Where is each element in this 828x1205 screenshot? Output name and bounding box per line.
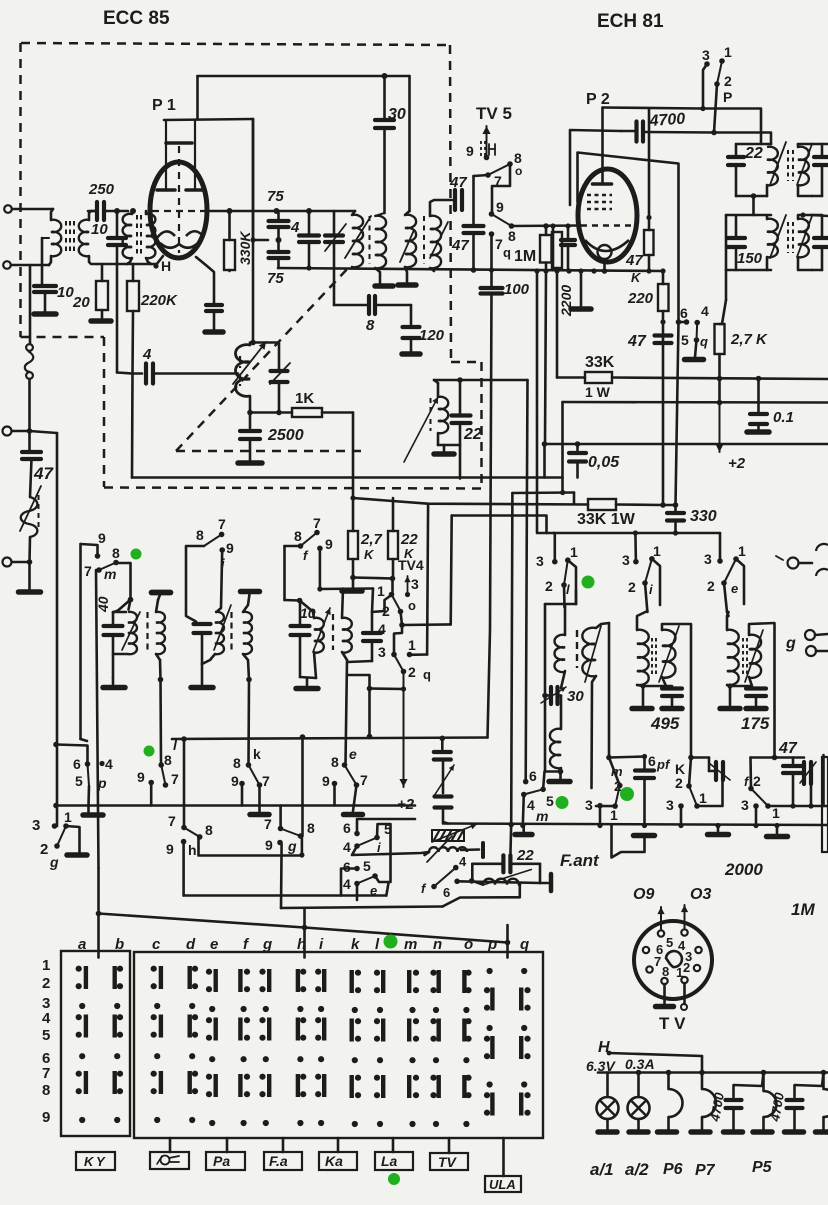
tube P2 cathode circle <box>598 245 612 259</box>
xfmr495 primary <box>637 630 649 685</box>
svg-text:5: 5 <box>666 935 673 950</box>
xfmr175 core <box>742 638 744 676</box>
box ULA stem <box>502 1138 505 1176</box>
svg-text:k: k <box>351 936 360 953</box>
input transformer 2 secondary <box>146 214 155 258</box>
FM antenna coil <box>21 497 38 537</box>
svg-text:5: 5 <box>42 1027 50 1044</box>
resistor 1K <box>292 408 322 417</box>
svg-text:TV 5: TV 5 <box>476 104 512 123</box>
switch group e: contact 3 <box>717 558 723 564</box>
junction <box>636 1070 642 1076</box>
ground (175 sec) <box>746 706 766 712</box>
svg-text:2200: 2200 <box>558 285 574 317</box>
svg-text:H: H <box>161 258 171 274</box>
capacitor (sec top right) <box>812 143 822 146</box>
green dot (K) <box>620 787 634 801</box>
wire tank2 left down <box>725 215 728 270</box>
padder cap 30 <box>545 694 549 697</box>
svg-text:ECC 85: ECC 85 <box>103 8 170 29</box>
wire tank1-tank2 <box>752 196 755 215</box>
capacitor 0.05 <box>576 444 579 450</box>
input transformer 2 core <box>136 215 138 257</box>
junction <box>302 925 308 931</box>
matrix contact pattern <box>84 966 88 989</box>
FM coil arrow <box>20 486 41 531</box>
switch f3: contacts <box>431 884 437 890</box>
wire P2 g1 left <box>578 153 679 323</box>
contact 9 (f-up) <box>317 546 323 552</box>
wire y444 <box>545 443 828 446</box>
wire e2-9 stem <box>333 784 336 806</box>
heater symbol dashes <box>480 141 482 158</box>
capacitor 4 <box>308 211 311 233</box>
ground (TV socket) <box>656 1004 674 1010</box>
FM coil core dash <box>38 495 40 531</box>
lamp P7 <box>701 1073 704 1090</box>
capacitor 100 <box>481 286 503 290</box>
svg-text:1: 1 <box>610 807 618 823</box>
svg-text:O3: O3 <box>690 886 711 903</box>
svg-text:TV4: TV4 <box>398 557 424 573</box>
wire f9 down <box>319 548 322 589</box>
wire contact2 down <box>714 84 717 133</box>
wire 6b left <box>341 869 357 896</box>
tube P1 anode left <box>157 188 175 192</box>
svg-text:2: 2 <box>683 960 690 975</box>
contact 2q (TV4) <box>401 669 407 675</box>
svg-text:8: 8 <box>196 527 204 543</box>
dashed box left edge <box>19 43 22 337</box>
svg-text:6: 6 <box>443 885 450 900</box>
switch group l: contact 3 <box>552 559 558 565</box>
dashed box left-mid vertical <box>103 337 106 487</box>
wire sec-to-369 <box>347 675 370 689</box>
wire T2 sec top <box>430 200 452 216</box>
ground (P7) <box>691 1129 710 1135</box>
phono jack arcs top <box>816 544 828 551</box>
svg-text:33K: 33K <box>585 354 615 371</box>
svg-text:175: 175 <box>741 714 770 733</box>
wire 611 drop <box>612 825 645 858</box>
switch k2: contact 9 <box>239 781 245 787</box>
dashed box bottom-left jog <box>21 336 105 339</box>
box ULA <box>485 1176 521 1192</box>
svg-text:8: 8 <box>331 754 339 770</box>
IF T2 secondary <box>430 216 441 269</box>
wire (none) <box>280 895 282 898</box>
contact 3 (mini) <box>597 803 603 809</box>
matrix box c-q <box>134 952 543 1138</box>
svg-text:8: 8 <box>112 545 120 561</box>
arrow TV5 up <box>486 126 488 157</box>
tankA core <box>146 612 148 650</box>
wire a-feed <box>97 914 100 958</box>
svg-text:250: 250 <box>88 181 115 198</box>
contact 1 (mini) <box>612 803 618 809</box>
tankC core <box>332 614 334 650</box>
switch g: contact 1 <box>63 823 69 829</box>
wire Fant to cap <box>509 825 512 856</box>
switch g2: contact 8 <box>298 833 304 839</box>
switch group i-up: bracket <box>186 546 204 622</box>
F.ant round coil <box>483 879 519 885</box>
tank22 coil <box>438 397 448 433</box>
junction <box>382 73 388 79</box>
wire left column top <box>29 265 32 344</box>
blade i-up <box>204 534 222 546</box>
capacitor (cathode) <box>206 303 222 307</box>
wire FM coil down <box>28 537 31 562</box>
svg-text:2,7 K: 2,7 K <box>730 331 768 348</box>
wire trimmer down <box>278 382 281 413</box>
wire 688 link <box>370 687 404 690</box>
svg-text:o: o <box>515 164 522 178</box>
wire long 805 <box>56 804 415 807</box>
capacitor 47 lower <box>464 224 484 228</box>
switch group e: contact 1 <box>733 556 739 562</box>
wire m2-4 up <box>523 795 524 826</box>
svg-text:9: 9 <box>322 773 330 789</box>
svg-text:2: 2 <box>675 775 683 791</box>
capacitor 4700a <box>734 1073 764 1098</box>
svg-text:7: 7 <box>218 516 226 532</box>
svg-text:6: 6 <box>529 768 537 784</box>
capacitor 2500 <box>249 413 252 429</box>
svg-text:b: b <box>115 936 124 953</box>
wire tankA sec bottom <box>156 654 160 660</box>
dashed right-lower vertical <box>480 362 483 488</box>
wire contact8 down <box>492 164 510 212</box>
svg-text:6: 6 <box>648 753 656 769</box>
contact 1 (P) <box>719 58 725 64</box>
wire 537-546 jog <box>536 530 538 531</box>
switch q: contact 4 <box>694 320 700 326</box>
switch k2: blade <box>249 765 260 785</box>
switch group i: contact 2 <box>642 580 648 586</box>
svg-text:1: 1 <box>570 544 578 560</box>
svg-text:3: 3 <box>741 797 749 813</box>
capacitor 120 <box>410 305 413 324</box>
ground (2500) <box>238 460 262 466</box>
lamp (right edge) <box>824 1089 828 1117</box>
switch ei: contact 6b <box>354 866 360 872</box>
svg-text:P: P <box>723 89 732 105</box>
svg-text:p: p <box>487 936 497 953</box>
switch group i: contact 1 <box>649 556 655 562</box>
svg-text:1: 1 <box>653 543 661 559</box>
svg-text:4: 4 <box>701 303 709 319</box>
switch group l: contact 1 <box>565 557 571 563</box>
TV socket pin lead <box>683 983 686 1004</box>
svg-text:9: 9 <box>466 143 474 159</box>
ground (825 left) <box>717 826 720 832</box>
svg-text:i: i <box>649 582 653 597</box>
capacitor 10 (grid) <box>116 211 119 236</box>
ground (left column) <box>19 589 41 595</box>
wire l1 down <box>568 560 576 604</box>
ground (4700b) <box>785 1129 804 1135</box>
svg-text:P7: P7 <box>695 1162 716 1179</box>
ground (825 right) <box>776 826 779 834</box>
svg-text:La: La <box>381 1153 398 1169</box>
svg-text:K: K <box>364 547 375 562</box>
svg-text:47: 47 <box>33 464 54 483</box>
tankC secondary <box>342 618 352 653</box>
svg-text:9: 9 <box>265 837 273 853</box>
wire 243 top <box>372 596 390 612</box>
lamp al1 <box>606 1073 609 1098</box>
switch ei: blade a <box>357 838 377 847</box>
box F.a stem <box>282 1138 285 1152</box>
contact 7 (f-up) <box>314 530 320 536</box>
svg-text:TV: TV <box>438 1154 458 1170</box>
wire 498 crossbar <box>353 498 588 505</box>
svg-text:3: 3 <box>666 797 674 813</box>
trimmer (AM ant) <box>435 794 452 798</box>
svg-text:2: 2 <box>408 664 416 680</box>
tankB core <box>230 612 232 650</box>
wire e2-7 ground <box>353 785 357 811</box>
switch m2: contact 6 <box>523 779 529 785</box>
switch ei: contact 5a <box>374 835 380 841</box>
junction <box>505 940 511 946</box>
contact 3b (TV4) <box>391 652 397 658</box>
wire f2-2 stem <box>749 758 752 789</box>
tube P2 cathode lead <box>603 259 606 271</box>
contact m2 mini <box>617 783 623 789</box>
svg-text:n: n <box>433 936 442 953</box>
wire heater H <box>609 1053 702 1056</box>
wire tank2 sec right <box>812 215 828 216</box>
wire P1 plate riser <box>196 76 199 119</box>
junction <box>276 237 282 243</box>
wire slope stem q <box>506 925 509 943</box>
svg-text:2: 2 <box>753 773 761 789</box>
switch group e: blade <box>724 559 736 583</box>
wire h8-g2 bus <box>199 838 302 856</box>
junction (x531) <box>530 824 532 826</box>
switch ei: contact 4a <box>354 843 360 849</box>
resistor 2200 <box>552 232 562 268</box>
svg-text:1: 1 <box>676 965 683 980</box>
contact 7 (i-up) <box>219 532 225 538</box>
tank1 coil <box>767 147 778 186</box>
junction <box>542 441 548 447</box>
svg-text:6: 6 <box>680 305 688 321</box>
wire bus 478 <box>131 374 134 478</box>
switch q: contact 5 <box>694 337 700 343</box>
IF T2 trimmer arrow 2 <box>430 222 448 258</box>
svg-text:5: 5 <box>681 332 689 348</box>
svg-text:1: 1 <box>408 637 416 653</box>
IF2 sec arrow <box>797 144 812 185</box>
tankA secondary <box>156 612 165 654</box>
svg-text:5: 5 <box>75 773 83 789</box>
svg-text:1: 1 <box>64 809 72 825</box>
wire P1 top horizontal <box>198 75 410 78</box>
wire m2-6 up <box>526 380 529 479</box>
wire 1M down <box>545 271 546 444</box>
ground (495 pri) <box>632 706 652 712</box>
svg-text:33K 1W: 33K 1W <box>577 511 636 528</box>
box KY <box>76 1152 115 1170</box>
ground (6pf) <box>634 833 655 839</box>
switch h: contact 9 <box>181 839 187 845</box>
svg-text:9: 9 <box>137 769 145 785</box>
svg-text:5: 5 <box>546 793 554 809</box>
osc coil arrow <box>233 342 266 384</box>
wire P1 cathode to bottom <box>196 257 214 303</box>
wire 577 right <box>353 578 393 579</box>
IF T2 core <box>423 216 425 264</box>
tank2 coil arrow <box>770 215 786 258</box>
IF2b secondary coil <box>798 219 809 258</box>
svg-text:1: 1 <box>699 790 707 806</box>
switch K: contact 3 <box>678 803 684 809</box>
capacitor 175 <box>749 677 752 686</box>
junction <box>27 559 33 565</box>
switch h: blade <box>184 828 200 837</box>
wire 719 down <box>718 379 721 403</box>
tankA arrow <box>122 612 140 650</box>
svg-text:F.a: F.a <box>269 1153 288 1169</box>
switch ei: contact 5b <box>372 873 378 879</box>
wire i2-to-495 <box>646 611 648 612</box>
svg-text:47: 47 <box>449 174 467 191</box>
sloped matrix feed <box>99 914 508 943</box>
contact 8b <box>509 223 515 229</box>
tank22 bottom rail <box>438 444 460 447</box>
wire tankB sec bottom <box>243 654 249 680</box>
svg-text:9: 9 <box>231 773 239 789</box>
svg-text:e: e <box>731 581 738 596</box>
junction <box>717 376 723 382</box>
xfmr175 secondary <box>749 635 761 678</box>
ground (e2) <box>344 812 363 818</box>
svg-text:7: 7 <box>495 236 503 252</box>
capacitor 22 (tank) <box>735 144 738 155</box>
breaker circle bottom <box>26 372 33 379</box>
wire osc top to trimmer <box>253 343 279 370</box>
osc lower coil <box>550 729 561 769</box>
wire 678 down <box>676 322 679 505</box>
svg-text:75: 75 <box>267 270 284 287</box>
ground (tankC) <box>296 686 318 692</box>
resistor 33K 1W b <box>588 499 616 510</box>
tank22 arrow <box>404 397 438 462</box>
switch e2: contact 7 <box>354 782 360 788</box>
svg-text:q: q <box>503 245 511 260</box>
svg-text:T V: T V <box>659 1014 686 1033</box>
tank1 bottom rail <box>736 195 767 198</box>
wire g1 to ground <box>66 826 80 852</box>
IF T2 primary <box>408 76 411 211</box>
junction <box>646 268 651 273</box>
svg-text:g: g <box>287 838 297 854</box>
capacitor 30 <box>375 118 394 122</box>
wire 6q left <box>679 321 687 324</box>
switch e2: contact 8 <box>342 762 348 768</box>
ground (m-up) <box>152 590 171 596</box>
wire 895 <box>184 894 387 897</box>
junction <box>543 223 549 229</box>
svg-text:h: h <box>188 842 197 858</box>
svg-text:3: 3 <box>536 553 544 569</box>
svg-text:+2: +2 <box>728 455 746 472</box>
svg-text:0,05: 0,05 <box>588 454 620 471</box>
wire 505 to 330 <box>663 504 676 507</box>
svg-text:7: 7 <box>360 772 368 788</box>
osc trimmer cap <box>271 369 288 373</box>
box phono stem <box>169 1138 172 1152</box>
svg-text:h: h <box>297 936 306 953</box>
svg-text:4: 4 <box>343 839 351 855</box>
resistor 330K <box>228 211 231 240</box>
ground (tankB) <box>201 664 204 684</box>
tank2 top rail <box>726 214 771 217</box>
junction <box>114 208 120 214</box>
wire rail to i3 <box>634 533 637 562</box>
svg-text:9: 9 <box>496 199 504 215</box>
osc xfmr left coil <box>544 604 547 772</box>
xfmr495 core <box>651 638 653 676</box>
resistor 22K <box>392 559 395 578</box>
switch blade 7-8 <box>488 164 510 175</box>
switch group l: contact 2 <box>561 582 567 588</box>
TV socket pins <box>658 930 664 936</box>
breaker squiggle <box>25 351 33 372</box>
switch k2: contact 7 <box>257 782 263 788</box>
wire y402 <box>563 401 828 404</box>
wire anode to tank <box>701 109 761 145</box>
box Pa <box>206 1152 245 1170</box>
svg-text:a/1: a/1 <box>590 1160 614 1179</box>
svg-text:p: p <box>97 775 107 791</box>
wire 2200 down <box>556 271 559 378</box>
wire 908 to tank <box>443 885 520 907</box>
tank2 coil <box>767 219 778 258</box>
wire 330 bottom rail <box>553 532 720 535</box>
green dot (matrix l-m) <box>384 935 398 949</box>
ground (T1 sec) <box>375 283 393 289</box>
tube P1 anode right <box>186 188 204 192</box>
IF T1 core <box>369 216 371 264</box>
phono terminal 2 <box>806 646 816 656</box>
ferrite arrow <box>432 824 477 842</box>
svg-text:10: 10 <box>57 284 74 301</box>
svg-text:i: i <box>377 840 381 855</box>
switch l2: contact 7 <box>163 782 169 788</box>
trimmer capacitor <box>333 211 336 233</box>
tankC cap <box>299 601 302 625</box>
input terminal A2 <box>3 261 11 269</box>
F.ant tank box <box>471 864 474 881</box>
svg-text:2: 2 <box>545 578 553 594</box>
arrow +2 (TV4) <box>403 672 405 788</box>
tube P1 grid dashed <box>152 210 206 212</box>
contact 7 (m-up) <box>96 567 102 573</box>
svg-text:3: 3 <box>704 551 712 567</box>
svg-text:9: 9 <box>42 1109 50 1126</box>
osc coil core dash <box>239 356 241 368</box>
resistor 220 <box>662 271 665 284</box>
xfmr495 arrow <box>659 626 679 682</box>
tankB secondary <box>243 612 252 654</box>
svg-text:g: g <box>49 854 59 870</box>
wire m7 down <box>96 570 99 868</box>
switch blade 1-2 (TV4) <box>392 595 401 612</box>
